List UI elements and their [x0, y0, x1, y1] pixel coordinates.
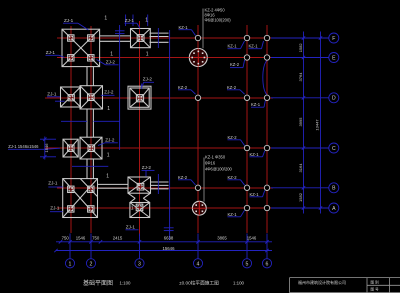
svg-text:6638: 6638: [164, 235, 174, 240]
footing grid3/rowD inner step: [130, 88, 149, 107]
svg-text:KZ-2: KZ-2: [228, 175, 238, 180]
grid bubble 2: [86, 259, 95, 268]
interior dim ticks near bottom: [164, 227, 174, 229]
cluster2 diagonal brace: [63, 179, 98, 218]
right dim tick row D: [302, 96, 305, 99]
leader ZJ-2 cluster1: [106, 64, 119, 66]
leader KZ label 5: [178, 89, 191, 91]
column section at grid2/rowF: [88, 35, 94, 41]
svg-text:5: 5: [246, 261, 249, 267]
svg-text:1: 1: [131, 206, 134, 212]
extension stub x=125.6 top: [125, 15, 127, 27]
column section at grid1/rowF: [68, 35, 74, 41]
tie beam row F right stub: [150, 32, 169, 34]
tie beam row B: [98, 183, 129, 185]
svg-text:1546: 1546: [76, 235, 86, 240]
column node grid x=247 row F: [244, 35, 249, 40]
cluster2 diagonal brace 2: [63, 179, 98, 218]
footing ZJ-2 grid3 row D outline: [128, 86, 151, 109]
svg-text:1:100: 1:100: [233, 280, 245, 285]
tie beam grid2 vertical upper: [86, 67, 88, 86]
svg-text:KZ-2: KZ-2: [227, 85, 237, 90]
pile cap footing cluster ZJ-1 grid1-2 rows B-A outline: [63, 179, 98, 218]
column node grid x=267 row C: [264, 145, 269, 150]
svg-text:ZJ-1: ZJ-1: [46, 50, 56, 55]
footing ZJ-2 grid3 row B outline: [128, 177, 151, 193]
right dim tick row A: [302, 206, 305, 209]
tie beam row B right stub: [151, 181, 169, 183]
grid row B axis: [57, 187, 273, 189]
grid bubble 1 stem: [69, 234, 71, 259]
svg-text:1: 1: [145, 17, 148, 23]
svg-text:1546: 1546: [247, 235, 257, 240]
extension line x=158.3 row F: [157, 28, 159, 48]
leader ZJ-1 1546x1546: [8, 148, 45, 150]
svg-text:ZJ-2: ZJ-2: [142, 165, 152, 170]
grid bubble 6: [262, 259, 271, 268]
grid row F axis: [57, 37, 273, 39]
svg-text:F: F: [332, 36, 335, 42]
leader KZ label 13: [228, 216, 241, 218]
column axis cross 15: [138, 186, 143, 188]
row E bubble line: [271, 57, 329, 59]
leader from top note to big circle 1: [202, 9, 204, 49]
column axis cross 8: [137, 97, 142, 99]
leader KZ label 4: [230, 67, 243, 69]
svg-text:KZ-1: KZ-1: [228, 212, 238, 217]
leader KZ label 6: [227, 89, 240, 91]
extension stub x=147.7 top: [147, 15, 149, 27]
leader ZJ-1 grid1 rowD: [47, 96, 60, 98]
svg-text:ZJ-2: ZJ-2: [106, 60, 116, 65]
column section at grid1/rowB: [68, 186, 74, 192]
row F bubble: [329, 33, 339, 43]
svg-text:C: C: [332, 146, 336, 152]
column node grid x=198 row F: [195, 35, 200, 40]
svg-text:ZJ-1: ZJ-1: [50, 206, 60, 211]
column axis cross 11: [68, 188, 73, 190]
footing ZJ-1 grid3 row A outline: [130, 203, 150, 218]
grid column 1 axis: [70, 26, 72, 233]
svg-text:KZ-2: KZ-2: [178, 85, 188, 90]
cluster1 diagonal brace 2: [62, 29, 100, 66]
leader ZJ-2 grid3 rowD: [144, 81, 155, 83]
right dimension line outer: [320, 32, 322, 214]
svg-text:ZJ-2: ZJ-2: [104, 90, 114, 95]
column axis cross 12: [88, 188, 93, 190]
row C bubble line: [271, 147, 329, 149]
leader ZJ-1 grid1 rowA: [50, 211, 63, 213]
grid column 6 axis: [266, 25, 268, 233]
row B bubble line: [271, 187, 329, 189]
leader KZ label 7: [251, 106, 264, 108]
svg-text:±0.00柱平面施工图: ±0.00柱平面施工图: [179, 279, 219, 286]
svg-text:基础平面图: 基础平面图: [83, 279, 113, 287]
svg-text:750: 750: [92, 235, 100, 240]
column axis cross 7: [88, 96, 93, 98]
interior dim line x=169.6: [169, 30, 171, 240]
column axis cross 14: [88, 208, 93, 210]
row F bubble line: [271, 37, 329, 39]
leader from mid note to big circle 2: [203, 158, 205, 202]
grid column 2 axis: [90, 26, 92, 233]
grid bubble 2 stem: [90, 234, 92, 259]
svg-text:1: 1: [69, 261, 72, 267]
grid bubble 3 stem: [139, 234, 141, 259]
grid bubble 4 stem: [197, 234, 199, 259]
svg-text:4Φ6@100/200: 4Φ6@100/200: [205, 167, 232, 172]
leader ZJ-1 grid3 top: [125, 22, 138, 24]
leader KZ label 1: [179, 29, 192, 31]
cluster1 diagonal brace: [62, 29, 100, 66]
column section at grid2/rowA: [88, 206, 94, 212]
svg-text:1582: 1582: [298, 192, 303, 202]
svg-text:1546: 1546: [44, 143, 49, 153]
dimension tick x=247: [245, 240, 248, 243]
column section at grid2/rowC: [88, 145, 95, 152]
left dim line row C: [44, 137, 46, 160]
svg-text:1: 1: [107, 106, 110, 112]
svg-text:3: 3: [138, 261, 141, 267]
dimension tick x=100.5: [99, 240, 102, 243]
svg-text:ZJ-1: ZJ-1: [47, 92, 57, 97]
left dim ticks: [43, 138, 46, 141]
row D bubble: [329, 93, 339, 103]
interior dim line ticks top: [115, 30, 125, 32]
grid column 4 axis: [197, 25, 199, 233]
grid bubble 3: [135, 259, 144, 268]
svg-text:KZ-1: KZ-1: [251, 102, 261, 107]
dimension tick x=139.5: [138, 240, 141, 243]
column section at grid3/rowB: [137, 183, 144, 190]
column node grid x=247 row E: [244, 55, 249, 60]
svg-text:Φ6@100(200): Φ6@100(200): [205, 18, 232, 23]
svg-text:ZJ-1: ZJ-1: [64, 18, 74, 23]
svg-text:ZJ-1 1546x1546: ZJ-1 1546x1546: [8, 144, 39, 149]
right dim tick row B: [302, 186, 305, 189]
left dim extension stubs: [40, 138, 56, 140]
svg-text:1: 1: [106, 174, 109, 180]
svg-text:A: A: [332, 206, 336, 212]
right dimension line inner: [303, 32, 305, 214]
column section at grid1/rowA: [68, 206, 74, 212]
leader KZ label 3: [249, 48, 262, 50]
inner dim below row C footings: [72, 165, 108, 167]
svg-text:KZ-2: KZ-2: [228, 135, 238, 140]
right dim tick row F: [302, 36, 305, 39]
svg-text:1:100: 1:100: [120, 280, 132, 285]
svg-text:1: 1: [107, 153, 110, 159]
tie beam grid2 vertical lower: [86, 159, 88, 179]
column axis cross 5: [138, 37, 143, 39]
svg-text:图 别: 图 别: [371, 280, 380, 285]
leader ZJ-2 grid2 rowC: [105, 142, 118, 144]
footing ZJ-1 grid3 taper diagonal BL: [131, 42, 137, 48]
leader ZJ-2 grid2 rowD: [101, 94, 115, 96]
footing grid1/rowC diagonals: [63, 139, 78, 157]
footing ZJ-1 grid3 X braces: [137, 34, 144, 41]
dimension tick x=198: [196, 240, 199, 243]
row D bubble line: [271, 97, 329, 99]
column node grid x=267 row B: [264, 185, 269, 190]
column section at grid3/rowD: [136, 95, 143, 102]
column axis cross 1: [68, 37, 73, 39]
leader ZJ-1 cluster1: [63, 22, 78, 24]
grid row D axis: [45, 97, 273, 99]
footing grid2/rowD diagonals: [80, 86, 103, 109]
footing ZJ-1 grid3 taper diagonal TL: [131, 29, 137, 35]
svg-text:图 号: 图 号: [371, 287, 380, 292]
column section at grid2/rowD: [88, 94, 95, 101]
svg-text:13447: 13447: [315, 119, 320, 131]
column section at grid3/rowA: [136, 204, 143, 211]
grid bubble 6 stem: [266, 234, 268, 259]
svg-text:KZ-2: KZ-2: [230, 62, 240, 67]
right dim tick row C: [302, 146, 305, 149]
dimension tick x=70: [68, 240, 71, 243]
leader ZJ-2 grid3 rowB: [142, 169, 155, 171]
svg-text:KZ-1: KZ-1: [250, 152, 260, 157]
svg-text:1: 1: [146, 52, 149, 58]
column axis cross 4: [88, 57, 93, 59]
grid bubble 5: [242, 259, 251, 268]
leader ZJ-1 grid3 bottom: [126, 229, 139, 231]
column node grid x=198 row B: [195, 185, 200, 190]
svg-text:KZ-1: KZ-1: [250, 192, 260, 197]
grid bubble 1: [65, 259, 74, 268]
leader KZ label 8: [228, 139, 241, 141]
column node grid x=267 row A: [264, 205, 269, 210]
row E bubble: [329, 53, 339, 63]
footing ZJ-1 grid1 row D outline: [61, 87, 81, 107]
title block divider 2: [389, 278, 391, 293]
svg-text:KZ-1: KZ-1: [249, 44, 259, 49]
column node grid x=198 row D: [195, 95, 200, 100]
grid bubble 5 stem: [246, 234, 248, 259]
dimension tick x=60.5: [59, 240, 62, 243]
tie beam row F cluster1 to grid3 footing: [100, 35, 131, 37]
footing grid3/rowA diagonals: [130, 203, 150, 218]
row C bubble: [329, 143, 339, 153]
total dimension ticks: [54, 249, 57, 252]
svg-text:4: 4: [197, 261, 200, 267]
column axis cross 13: [68, 208, 73, 210]
column axis cross 6: [69, 97, 74, 99]
cluster2 corner taper: [80, 179, 97, 197]
footing ZJ-1 grid1 row C outline: [63, 139, 78, 157]
svg-text:ZJ-1: ZJ-1: [126, 225, 136, 230]
footing ZJ-2 grid2 row D outline: [80, 86, 103, 109]
column axis cross 3: [68, 57, 73, 59]
dimension tick x=267: [265, 240, 268, 243]
svg-text:3995: 3995: [298, 117, 303, 127]
svg-text:E: E: [332, 55, 336, 61]
column axis cross 16: [137, 206, 142, 208]
footing grid3 B-A taper joint: [128, 193, 135, 198]
pile column detail circle KZ-1 at grid4 row A: [192, 201, 206, 215]
extension stub x=133 top: [132, 15, 134, 27]
svg-text:3164: 3164: [298, 163, 303, 173]
leader KZ label 2: [228, 48, 241, 50]
bottom dimension line 2 (total): [56, 250, 272, 252]
right outer dim ticks: [319, 36, 322, 39]
column node grid x=267 row D: [264, 95, 269, 100]
footing ZJ-2 grid2 row C outline: [80, 137, 102, 159]
svg-text:2: 2: [90, 261, 93, 267]
tie beam grid2 vertical middle: [86, 109, 88, 137]
right dim tick row E: [302, 56, 305, 59]
pile cap footing cluster ZJ-1 grid1-2 rows F-E outline: [62, 29, 100, 66]
svg-text:ZJ-2: ZJ-2: [105, 138, 115, 143]
svg-text:750: 750: [62, 235, 70, 240]
svg-text:ZJ-1: ZJ-1: [48, 180, 58, 185]
leader arc near grid6: [263, 61, 267, 95]
column node grid x=247 row B: [244, 185, 249, 190]
left stub at row D footing: [55, 100, 65, 102]
note block KZ-2 top: [205, 8, 232, 23]
inner dim between grid1-2 below row D: [61, 120, 87, 122]
column node grid x=247 row A: [244, 205, 249, 210]
svg-text:KZ-2: KZ-2: [178, 175, 188, 180]
row A bubble: [329, 203, 339, 213]
svg-text:福州市建筑设计院有限公司: 福州市建筑设计院有限公司: [298, 279, 346, 285]
footing ZJ-1 grid3 taper diagonal BR: [144, 42, 150, 48]
bottom dimension line 1: [56, 241, 272, 243]
column section at grid1/rowE: [68, 55, 74, 61]
footing ZJ-1 at grid3 row F outline: [131, 29, 151, 48]
title block divider 1: [366, 278, 368, 293]
interior dim line x=119.6: [119, 25, 121, 150]
column node grid x=267 row F: [264, 35, 269, 40]
svg-text:KZ-1 Φ350: KZ-1 Φ350: [205, 155, 226, 160]
svg-text:B: B: [332, 186, 336, 192]
svg-text:15646: 15646: [163, 246, 176, 251]
extension stub above grid3 rowD footing: [141, 84, 143, 90]
column axis cross 9: [68, 147, 73, 149]
svg-text:1582: 1582: [298, 43, 303, 53]
column axis cross 10: [89, 147, 94, 149]
row A bubble line: [271, 207, 329, 209]
column section at grid2/rowE: [88, 55, 94, 61]
column section at grid1/rowC: [68, 145, 74, 151]
grid column 5 axis: [246, 25, 248, 233]
row B bubble: [329, 183, 339, 193]
svg-text:6: 6: [266, 261, 269, 267]
svg-text:2415: 2415: [113, 235, 123, 240]
column section at grid1/rowD: [68, 95, 74, 101]
svg-text:KZ-1: KZ-1: [179, 25, 189, 30]
column section at grid3/rowF: [137, 35, 144, 42]
extension line x=158.3 row B: [157, 174, 159, 194]
svg-text:3865: 3865: [217, 235, 227, 240]
pile column detail circle KZ-2 at grid4 row E: [189, 49, 207, 67]
footing grid2/rowC diagonals: [80, 137, 102, 159]
leader ZJ-1 grid1 rowB: [48, 186, 62, 188]
leader ZJ-1 left cluster1: [46, 54, 60, 56]
svg-text:3764: 3764: [298, 72, 303, 82]
svg-text:6Φ16: 6Φ16: [205, 161, 216, 166]
leader KZ label 9: [250, 156, 263, 158]
grid row C axis: [45, 147, 273, 149]
title block mid rule: [367, 284, 400, 286]
column node grid x=247 row D: [244, 95, 249, 100]
svg-text:D: D: [332, 96, 336, 102]
svg-text:KZ-1: KZ-1: [228, 44, 238, 49]
note block KZ-1 middle: [205, 155, 232, 172]
footing grid1/rowD diagonals: [61, 87, 81, 107]
grid bubble 4: [193, 259, 202, 268]
svg-text:ZJ-2: ZJ-2: [143, 77, 153, 82]
svg-text:1: 1: [110, 51, 113, 57]
svg-text:1: 1: [104, 16, 107, 22]
footing grid3/rowB diagonals: [128, 177, 151, 193]
footing ZJ-1 grid3 taper diagonal TR: [144, 29, 150, 35]
column section at grid2/rowB: [88, 186, 94, 192]
footing grid3/rowD diagonals: [130, 88, 136, 94]
leader KZ label 10: [178, 179, 191, 181]
dimension tick x=91: [89, 240, 92, 243]
grid row E axis: [57, 57, 273, 59]
column node grid x=267 row E: [264, 55, 269, 60]
title block frame: [290, 278, 400, 293]
svg-text:ZJ-1: ZJ-1: [125, 18, 135, 23]
leader KZ label 12: [250, 196, 263, 198]
grid column 3 axis: [139, 21, 141, 236]
leader KZ label 11: [228, 179, 241, 181]
column node grid x=247 row C: [244, 145, 249, 150]
column axis cross 2: [88, 37, 93, 39]
grid row A axis: [57, 207, 273, 209]
